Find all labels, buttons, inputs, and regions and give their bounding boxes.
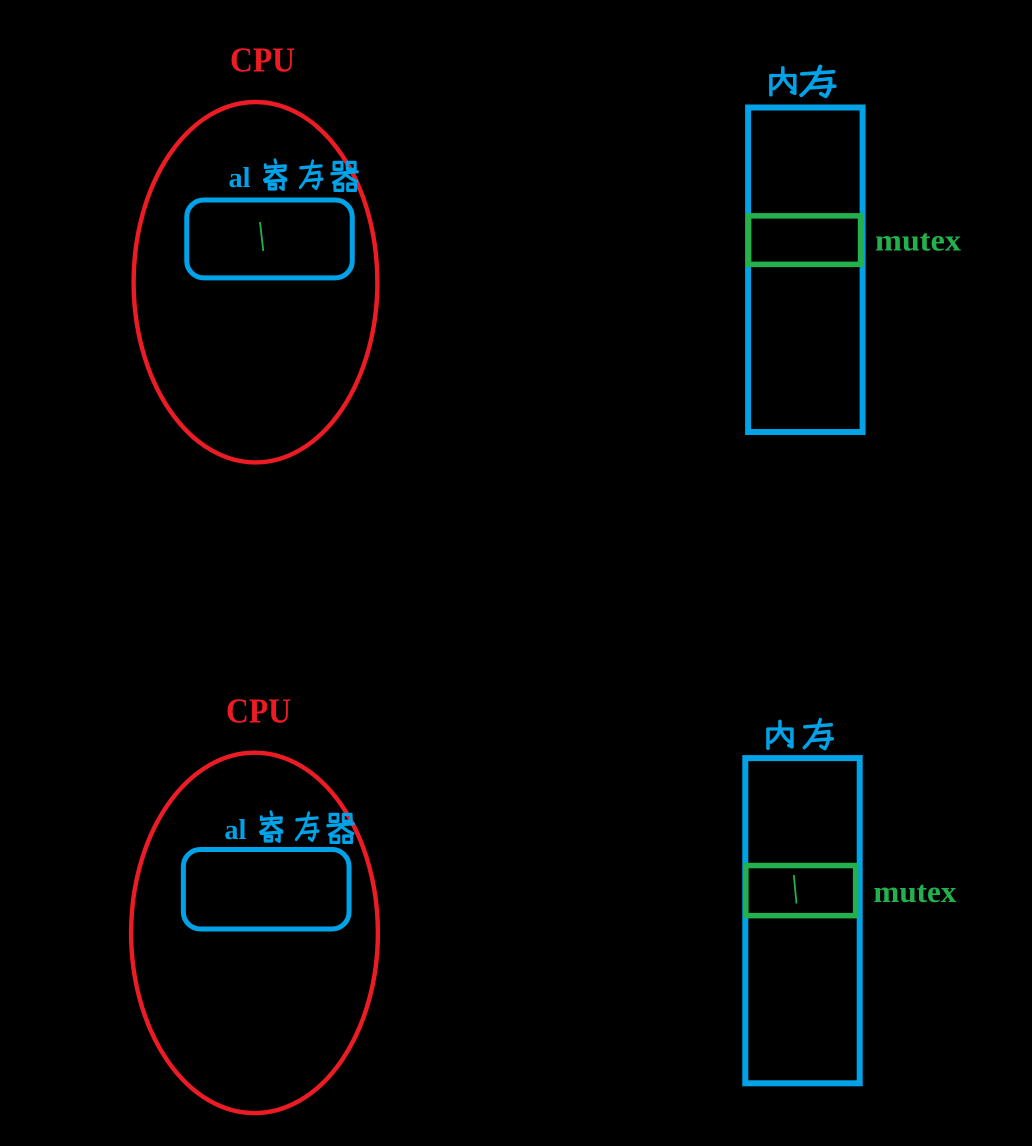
svg-text:CPU: CPU — [226, 692, 291, 731]
label 器 (top) — [332, 162, 358, 190]
memory rectangle (bottom) — [745, 758, 859, 1083]
label 寄 (top) — [264, 160, 285, 189]
CPU ellipse (bottom) — [131, 753, 378, 1113]
memory rectangle (top) — [748, 108, 863, 433]
svg-text:al: al — [229, 163, 251, 194]
al register box (top) — [187, 200, 353, 278]
svg-text:mutex: mutex — [875, 223, 962, 258]
green tick in register (top) — [260, 222, 263, 251]
label 寄 (bottom) — [260, 812, 281, 841]
label 内 (bottom) — [768, 721, 792, 748]
label 内 (top) — [771, 68, 795, 95]
label 存 (bottom-right) — [804, 720, 832, 749]
svg-text:mutex: mutex — [873, 874, 956, 909]
label 器 (bottom) — [328, 814, 354, 842]
label 存 (top-left) — [300, 161, 322, 188]
label 存 (top-right) — [801, 66, 834, 96]
svg-text:CPU: CPU — [230, 40, 295, 79]
mutex cell (top) — [749, 216, 861, 265]
label 存 (bottom-left) — [296, 813, 318, 840]
al register box (bottom) — [183, 850, 349, 929]
CPU ellipse (top) — [134, 102, 378, 462]
mutex cell (bottom) — [746, 866, 856, 916]
svg-text:al: al — [224, 815, 246, 846]
green tick in mutex cell (bottom) — [794, 875, 797, 904]
